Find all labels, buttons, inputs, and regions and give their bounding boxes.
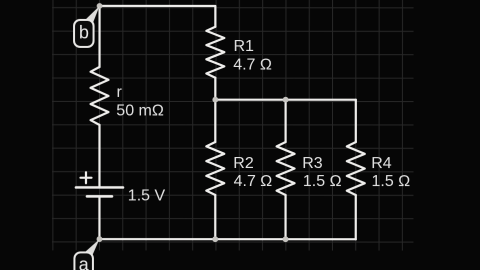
- svg-text:50 mΩ: 50 mΩ: [116, 103, 164, 120]
- svg-text:1.5 V: 1.5 V: [128, 187, 166, 204]
- svg-text:R3: R3: [302, 155, 323, 172]
- svg-text:a: a: [79, 255, 90, 270]
- svg-text:b: b: [79, 22, 89, 42]
- svg-text:r: r: [117, 84, 123, 101]
- svg-text:R2: R2: [233, 155, 254, 172]
- svg-text:4.7 Ω: 4.7 Ω: [233, 57, 272, 74]
- svg-text:R1: R1: [234, 38, 255, 55]
- svg-text:1.5 Ω: 1.5 Ω: [371, 173, 410, 190]
- svg-text:R4: R4: [371, 155, 392, 172]
- svg-text:1.5 Ω: 1.5 Ω: [303, 173, 342, 190]
- svg-text:4.7 Ω: 4.7 Ω: [234, 173, 273, 190]
